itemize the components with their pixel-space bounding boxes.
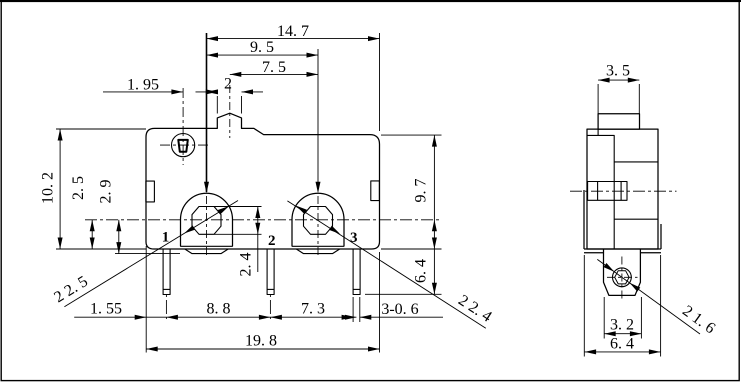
side hole vertical centerline	[621, 257, 623, 302]
dim 3.2 line	[604, 333, 641, 335]
svg-text:2. 5: 2. 5	[70, 176, 87, 200]
pin 1	[163, 249, 170, 295]
svg-text:2: 2	[224, 75, 232, 92]
body top ext tick left	[56, 128, 146, 130]
side hole horizontal centerline	[607, 276, 638, 278]
dim 3.2 ext lines	[603, 297, 605, 339]
ext line body left bottom	[145, 246, 147, 353]
svg-text:10. 2: 10. 2	[40, 172, 57, 204]
terminal 1 dome	[181, 193, 233, 246]
dim 6.4 line	[585, 351, 661, 353]
terminal 1 vertical centerline lower	[206, 196, 208, 256]
leader 2-2.5 arrows	[218, 204, 230, 214]
svg-text:2. 4: 2. 4	[238, 253, 255, 277]
terminal 3 foot	[296, 249, 339, 254]
side strip line right	[640, 252, 661, 254]
svg-text:3. 2: 3. 2	[610, 317, 634, 334]
svg-text:6. 4: 6. 4	[610, 336, 634, 353]
screw vertical centerline	[182, 88, 184, 165]
side inner mid line	[614, 161, 658, 163]
dim 9.7 and 6.4 shared line	[433, 135, 435, 294]
side hole hex	[615, 271, 629, 284]
dim 2.4 line	[257, 207, 259, 273]
plunger width ext line right	[241, 96, 243, 114]
screw slot	[178, 140, 188, 152]
pin 2	[267, 249, 274, 295]
pin number labels	[162, 230, 358, 250]
svg-text:1. 55: 1. 55	[90, 300, 122, 317]
dim 10.2 line	[59, 129, 61, 249]
side strip line left	[584, 252, 604, 254]
dim 2.9 line	[118, 220, 120, 254]
dim 2.4 top tick	[214, 206, 262, 208]
svg-text:8. 8: 8. 8	[207, 300, 231, 317]
side tab	[604, 249, 641, 295]
dim 8.8 and 7.3 line	[146, 316, 356, 318]
dim 2.4	[255, 207, 260, 219]
extension line terminal1 center (heavy)	[206, 33, 208, 192]
right clip notch	[371, 181, 380, 201]
svg-text:14. 7: 14. 7	[277, 23, 309, 40]
body top ext tick right	[381, 134, 442, 136]
side plunger	[598, 114, 639, 129]
svg-text:3-0. 6: 3-0. 6	[381, 301, 418, 318]
side body outline	[587, 129, 658, 249]
dim 9.5 line	[207, 54, 319, 56]
arrows dim 14.7	[207, 36, 219, 41]
side inner top-left line	[587, 135, 614, 249]
pin bottom ext tick right	[365, 293, 442, 295]
center lines	[85, 85, 442, 322]
dim 1.55 line	[74, 316, 146, 318]
leader 2-2.4 arrows	[295, 203, 307, 213]
switch body outline	[146, 113, 380, 249]
pin 1 lower centerline	[165, 295, 167, 322]
dim 2.4 bottom tick	[214, 233, 262, 235]
leader 2-1.6 arrows	[604, 263, 616, 274]
side dimensions	[584, 80, 700, 356]
side centerlines	[570, 191, 677, 301]
plunger width ext line left	[216, 96, 218, 114]
terminal 3 base line	[292, 245, 345, 247]
side boss	[588, 182, 627, 201]
extension line terminal3 center	[317, 49, 319, 192]
svg-text:1. 95: 1. 95	[127, 77, 159, 94]
svg-text:19. 8: 19. 8	[245, 333, 277, 350]
side inner lower line	[614, 218, 658, 220]
extension line body right top	[379, 33, 381, 131]
dim 3.5 line	[598, 79, 639, 81]
pin 3	[353, 249, 360, 295]
side outer shell left	[583, 190, 585, 249]
screw horizontal centerline	[160, 144, 208, 146]
svg-text:7. 3: 7. 3	[301, 300, 325, 317]
side hole circle	[613, 268, 632, 287]
svg-text:9. 7: 9. 7	[413, 179, 430, 203]
bottom dims	[135, 315, 147, 320]
dim 19.8 line	[146, 348, 379, 350]
dimension texts front	[40, 23, 495, 350]
dim 6.4 ext lines	[583, 255, 585, 357]
ext line pin3 right edge	[359, 297, 361, 322]
plunger left continuation	[597, 129, 599, 135]
svg-text:6. 4: 6. 4	[413, 259, 430, 283]
side bottom line	[584, 248, 661, 250]
pin 2 lower centerline	[269, 295, 271, 322]
svg-text:3. 5: 3. 5	[606, 63, 630, 80]
svg-text:2: 2	[268, 233, 276, 249]
horizontal terminal centerline	[85, 219, 442, 221]
right dims 9.7 / 6.4	[432, 135, 437, 147]
svg-text:9. 5: 9. 5	[250, 39, 274, 56]
body bottom ext tick left	[56, 248, 146, 250]
plunger vertical centerline	[229, 85, 231, 138]
leader 2-2.5	[64, 201, 238, 307]
svg-text:2. 9: 2. 9	[97, 180, 114, 204]
left dims	[58, 129, 63, 141]
shelf bottom ext tick left	[115, 253, 180, 255]
screw circle	[172, 134, 195, 157]
leader 2-1.6 line	[597, 259, 700, 334]
dim 14.7 line	[207, 38, 380, 40]
terminal 3 hex hole	[304, 207, 333, 235]
dim 7.5 line	[230, 73, 318, 75]
terminal 1 foot	[185, 249, 228, 254]
down arrows at terminal dome tops	[204, 182, 209, 194]
svg-text:7. 5: 7. 5	[262, 59, 286, 76]
dim 2.5 line	[91, 220, 93, 249]
dim 3-0.6 line	[360, 316, 443, 318]
side outer shell right	[660, 224, 662, 249]
dim 1.95/2 middle tail	[196, 91, 218, 93]
terminal 3 dome	[292, 193, 344, 246]
ext line pin3 left edge	[352, 297, 354, 322]
ext line body right bottom	[379, 252, 381, 353]
side main horizontal centerline	[570, 190, 677, 192]
dim 3.5 ext lines	[597, 84, 599, 114]
terminal 1 hex hole	[192, 207, 221, 235]
left clip notch	[146, 181, 155, 202]
terminal 1 base line	[180, 245, 233, 247]
dim 2 right tail	[242, 91, 264, 93]
arrowheads front	[58, 36, 437, 351]
leader 2-2.4	[287, 201, 485, 328]
terminal 3 vertical centerline lower	[317, 196, 319, 256]
body bottom ext tick right	[381, 248, 442, 250]
dim 1.95 line left tail	[103, 91, 183, 93]
